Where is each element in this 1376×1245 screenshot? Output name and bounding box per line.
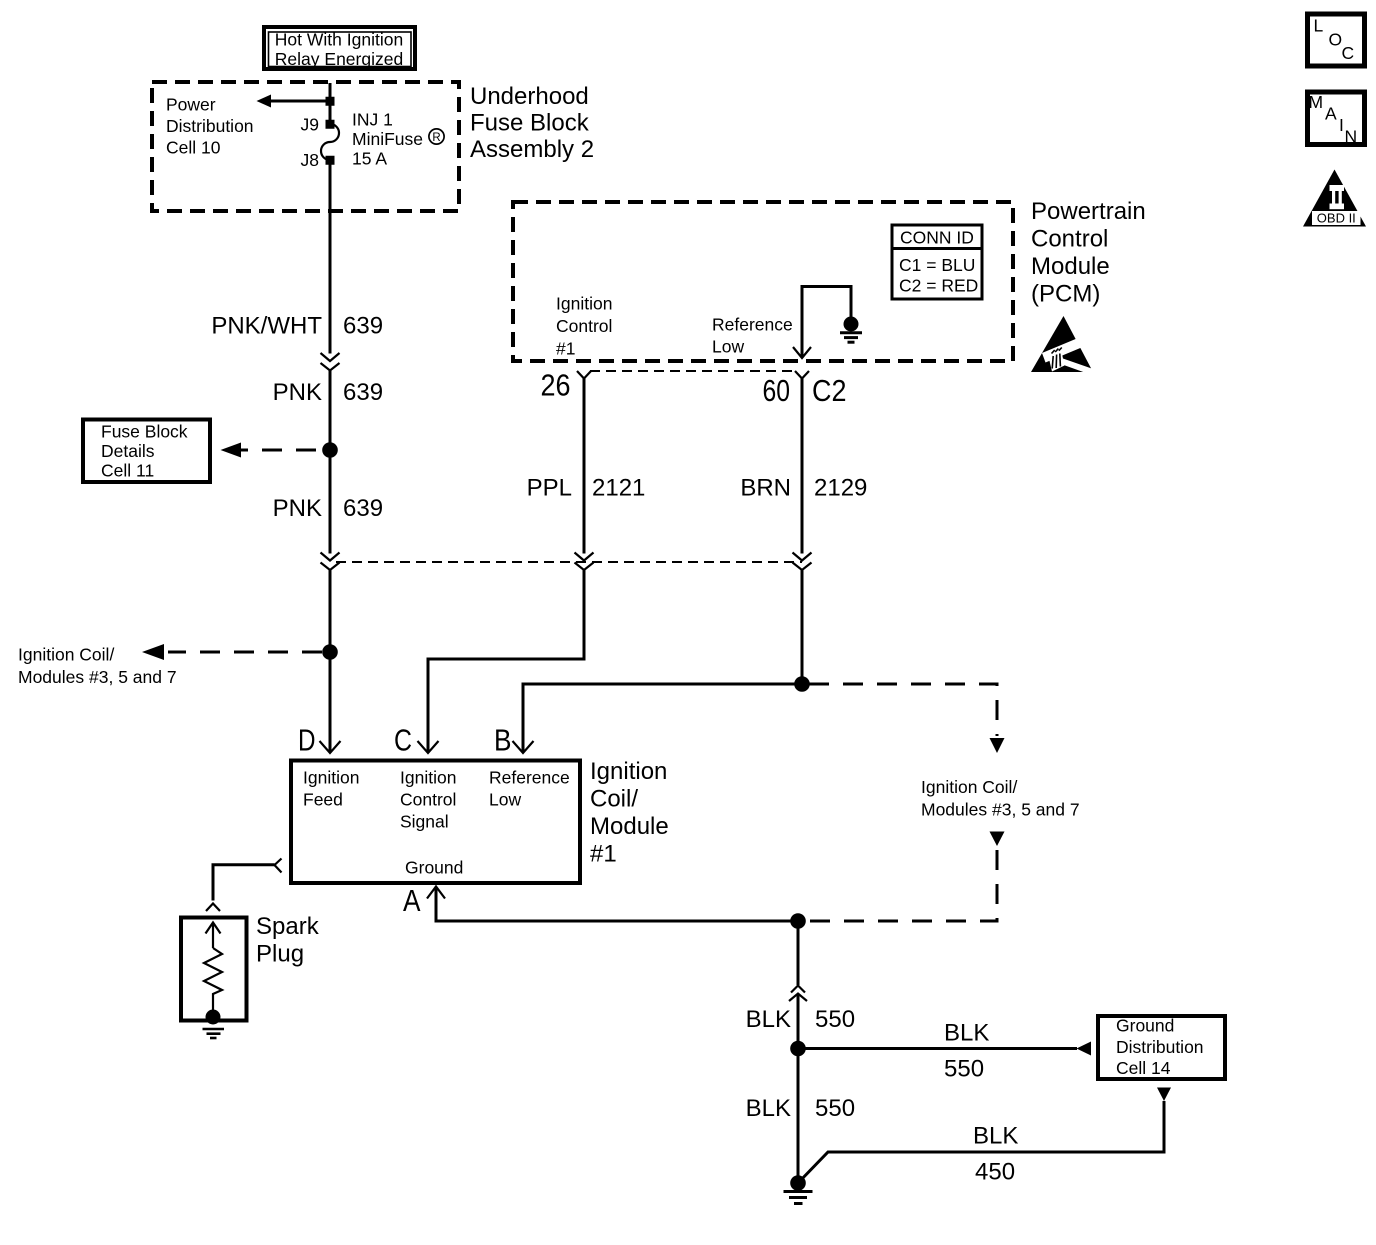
label Power Distribution Cell 10 — [166, 95, 254, 158]
in-line connector on PNK wire — [321, 353, 340, 371]
junction dot BLK 550 — [790, 1041, 806, 1057]
svg-text:C1 = BLU: C1 = BLU — [899, 255, 975, 275]
Hot With Ignition Relay Energized box — [264, 27, 415, 69]
svg-text:Control: Control — [400, 790, 456, 810]
wire BLK 550 middle — [797, 994, 800, 1184]
ESD sensitive symbol — [1031, 316, 1100, 376]
arrowhead into pin A — [427, 887, 445, 899]
junction square at feed — [326, 97, 335, 106]
svg-text:(PCM): (PCM) — [1031, 281, 1100, 308]
svg-text:550: 550 — [815, 1006, 855, 1033]
svg-text:Reference: Reference — [712, 315, 793, 335]
wire BRN 2129 upper — [801, 379, 804, 554]
svg-text:2129: 2129 — [814, 475, 867, 502]
svg-text:Relay Energized: Relay Energized — [275, 49, 403, 69]
svg-text:PNK/WHT: PNK/WHT — [211, 313, 322, 340]
pin 60 connector — [795, 371, 809, 379]
in-line connector C100 on PNK wire — [321, 553, 340, 571]
pin 26 connector — [577, 371, 591, 379]
svg-text:60: 60 — [763, 373, 791, 408]
OBD II symbol — [1303, 170, 1366, 227]
label Ignition Coil Modules 3 5 and 7 (right) — [921, 777, 1080, 820]
PCM internal ground symbol — [840, 333, 862, 342]
wire BRN to ignition coil pin B — [523, 570, 802, 752]
svg-text:Low: Low — [712, 337, 744, 357]
svg-text:BLK: BLK — [973, 1123, 1018, 1150]
svg-text:Ground: Ground — [1116, 1016, 1174, 1036]
wire BLK 550 to ground distribution — [798, 1047, 1077, 1050]
svg-text:Ground: Ground — [405, 858, 463, 878]
label Underhood Fuse Block Assembly 2 — [470, 83, 594, 163]
svg-text:J9: J9 — [301, 115, 319, 135]
spark plug connector chevron — [206, 904, 220, 912]
arrowhead up into ground distribution box — [1157, 1088, 1171, 1102]
arrowhead to ignition coil modules 3 5 7 — [142, 644, 164, 660]
svg-text:Fuse Block: Fuse Block — [470, 110, 590, 137]
svg-text:Fuse Block: Fuse Block — [101, 422, 188, 442]
svg-text:C: C — [394, 723, 412, 758]
svg-text:PNK: PNK — [273, 379, 322, 406]
svg-text:C: C — [1342, 43, 1355, 63]
label Spark Plug — [256, 913, 320, 968]
svg-text:639: 639 — [343, 379, 383, 406]
svg-text:Plug: Plug — [256, 941, 304, 968]
svg-text:639: 639 — [343, 495, 383, 522]
svg-text:J8: J8 — [301, 150, 319, 170]
svg-text:Cell 14: Cell 14 — [1116, 1058, 1171, 1078]
label Ignition Coil Module 1 — [590, 758, 669, 868]
wire BLK 550 upper — [797, 921, 800, 985]
svg-text:N: N — [1345, 127, 1358, 147]
svg-text:MiniFuse: MiniFuse — [352, 129, 423, 149]
Ignition Coil Module 1 box — [291, 761, 580, 884]
svg-text:Ignition: Ignition — [400, 768, 456, 788]
spark plug lead wire — [213, 865, 275, 901]
arrowhead into pin 60 — [793, 347, 811, 358]
svg-text:Ignition: Ignition — [590, 758, 667, 785]
arrowhead to fuse block details — [221, 443, 242, 458]
CONN ID table — [892, 225, 982, 299]
arrowhead down to label — [990, 738, 1005, 753]
arrowhead into pin D — [320, 741, 341, 753]
spark plug ground dot — [206, 1010, 221, 1025]
svg-text:Distribution: Distribution — [166, 116, 254, 136]
svg-text:PPL: PPL — [527, 475, 572, 502]
svg-text:Cell 11: Cell 11 — [101, 461, 154, 481]
arrowhead below label — [990, 832, 1005, 847]
pin label Reference Low — [489, 768, 570, 810]
dashed branch to ground wire — [806, 850, 997, 921]
svg-text:2121: 2121 — [592, 475, 645, 502]
svg-text:450: 450 — [975, 1159, 1015, 1186]
svg-text:M: M — [1309, 92, 1324, 112]
label Reference Low — [712, 315, 793, 357]
ground junction dot G107 — [790, 1175, 806, 1191]
Underhood Fuse Block Assembly 2 dashed box — [152, 82, 459, 211]
wire PPL 2121 upper — [583, 379, 586, 554]
junction dot to fuse block details — [322, 442, 338, 458]
arrowhead into pin B — [513, 741, 534, 753]
label INJ 1 MiniFuse 15 A — [352, 110, 444, 169]
ground wire from pin A — [436, 887, 798, 922]
svg-text:26: 26 — [541, 368, 571, 403]
svg-text:#1: #1 — [556, 339, 575, 359]
svg-text:15 A: 15 A — [352, 149, 387, 169]
dashed branch to other coil modules (upper) — [809, 684, 997, 736]
svg-text:L: L — [1314, 16, 1324, 36]
PCM internal ground dot — [844, 317, 859, 332]
PCM dashed box — [513, 202, 1013, 361]
svg-text:Low: Low — [489, 790, 521, 810]
in-line harness connector dashed line — [336, 561, 802, 563]
junction square J8 — [326, 156, 335, 165]
junction dot ground wire — [790, 913, 806, 929]
svg-text:OBD II: OBD II — [1317, 211, 1356, 226]
PCM connector face dashed line — [590, 370, 796, 372]
svg-text:Cell 10: Cell 10 — [166, 138, 221, 158]
svg-text:INJ 1: INJ 1 — [352, 110, 393, 130]
svg-text:550: 550 — [815, 1095, 855, 1122]
svg-text:Module: Module — [590, 813, 669, 840]
svg-text:Spark: Spark — [256, 913, 320, 940]
svg-text:Ignition Coil/: Ignition Coil/ — [18, 645, 114, 665]
dashed arrow to fuse block details — [240, 449, 316, 452]
svg-text:Ignition Coil/: Ignition Coil/ — [921, 777, 1017, 797]
female connector at coil left — [275, 859, 282, 873]
svg-text:Hot With Ignition: Hot With Ignition — [275, 30, 403, 50]
LOC legend box — [1308, 14, 1365, 66]
svg-text:I: I — [1339, 115, 1344, 135]
svg-text:CONN ID: CONN ID — [900, 228, 974, 248]
svg-text:Distribution: Distribution — [1116, 1037, 1204, 1057]
svg-text:Control: Control — [1031, 226, 1108, 253]
svg-text:PNK: PNK — [273, 495, 322, 522]
svg-text:Assembly 2: Assembly 2 — [470, 136, 594, 163]
spark plug ground symbol — [203, 1029, 225, 1038]
svg-text:BLK: BLK — [746, 1006, 791, 1033]
pin label Ignition Control Signal — [400, 768, 456, 832]
svg-text:Underhood: Underhood — [470, 83, 589, 110]
spark plug resistor zigzag — [204, 948, 222, 1016]
in-line connector on BLK wire — [789, 986, 807, 1002]
Spark Plug box — [181, 918, 247, 1021]
wire from ignition relay into fuse block — [329, 83, 332, 124]
ground symbol G107 — [784, 1192, 813, 1204]
Fuse Block Details Cell 11 box — [83, 420, 210, 483]
svg-text:Modules #3, 5 and 7: Modules #3, 5 and 7 — [18, 667, 177, 687]
arrowhead to power distribution — [257, 95, 272, 108]
svg-text:C2: C2 — [812, 373, 847, 408]
svg-text:Reference: Reference — [489, 768, 570, 788]
svg-text:Module: Module — [1031, 253, 1110, 280]
svg-text:Feed: Feed — [303, 790, 343, 810]
pin label Ignition Feed — [303, 768, 359, 810]
dashed arrow to ignition coil modules 3 5 7 — [168, 651, 322, 654]
svg-text:Modules #3, 5 and 7: Modules #3, 5 and 7 — [921, 800, 1080, 820]
Ground Distribution Cell 14 box — [1098, 1016, 1225, 1080]
svg-text:A: A — [1325, 104, 1337, 124]
PCM internal ground wire — [802, 287, 851, 359]
wire to power distribution — [269, 100, 330, 103]
junction dot to other ignition coils — [322, 644, 338, 660]
svg-text:B: B — [494, 723, 512, 758]
svg-text:Powertrain: Powertrain — [1031, 198, 1146, 225]
wire PNK to ignition coil pin D — [329, 570, 332, 752]
svg-text:Signal: Signal — [400, 812, 449, 832]
in-line connector on BRN wire — [793, 553, 812, 571]
wire PNK/WHT 639 — [329, 160, 332, 354]
svg-text:Details: Details — [101, 441, 155, 461]
junction square J9 — [326, 120, 335, 129]
in-line connector on PPL wire — [575, 553, 594, 571]
arrowhead into pin C — [418, 741, 439, 753]
svg-text:D: D — [298, 723, 316, 758]
label Ignition Coil Modules 3 5 and 7 (left) — [18, 645, 177, 688]
svg-text:550: 550 — [944, 1056, 984, 1083]
fuse INJ 1 — [321, 124, 339, 160]
spark gap arrow — [206, 923, 221, 949]
svg-text:Control: Control — [556, 316, 612, 336]
svg-text:Ignition: Ignition — [303, 768, 359, 788]
label Powertrain Control Module (PCM) — [1031, 198, 1146, 308]
wire PNK 639 upper — [329, 371, 332, 554]
svg-text:639: 639 — [343, 313, 383, 340]
svg-text:#1: #1 — [590, 841, 617, 868]
svg-text:Power: Power — [166, 95, 216, 115]
svg-text:Coil/: Coil/ — [590, 786, 638, 813]
svg-text:R: R — [432, 132, 440, 144]
wire BLK 450 — [798, 1101, 1164, 1183]
svg-text:BRN: BRN — [740, 475, 791, 502]
svg-text:A: A — [403, 883, 421, 918]
junction dot reference low branch — [794, 676, 810, 692]
svg-text:Ignition: Ignition — [556, 294, 612, 314]
label Ignition Control #1 — [556, 294, 612, 359]
arrowhead at ground distribution box — [1077, 1042, 1092, 1056]
MAIN legend box — [1308, 92, 1365, 147]
wire PPL to ignition coil pin C — [428, 570, 584, 752]
svg-text:BLK: BLK — [944, 1020, 989, 1047]
svg-text:BLK: BLK — [746, 1095, 791, 1122]
svg-text:C2 = RED: C2 = RED — [899, 276, 978, 296]
svg-text:O: O — [1329, 30, 1343, 50]
